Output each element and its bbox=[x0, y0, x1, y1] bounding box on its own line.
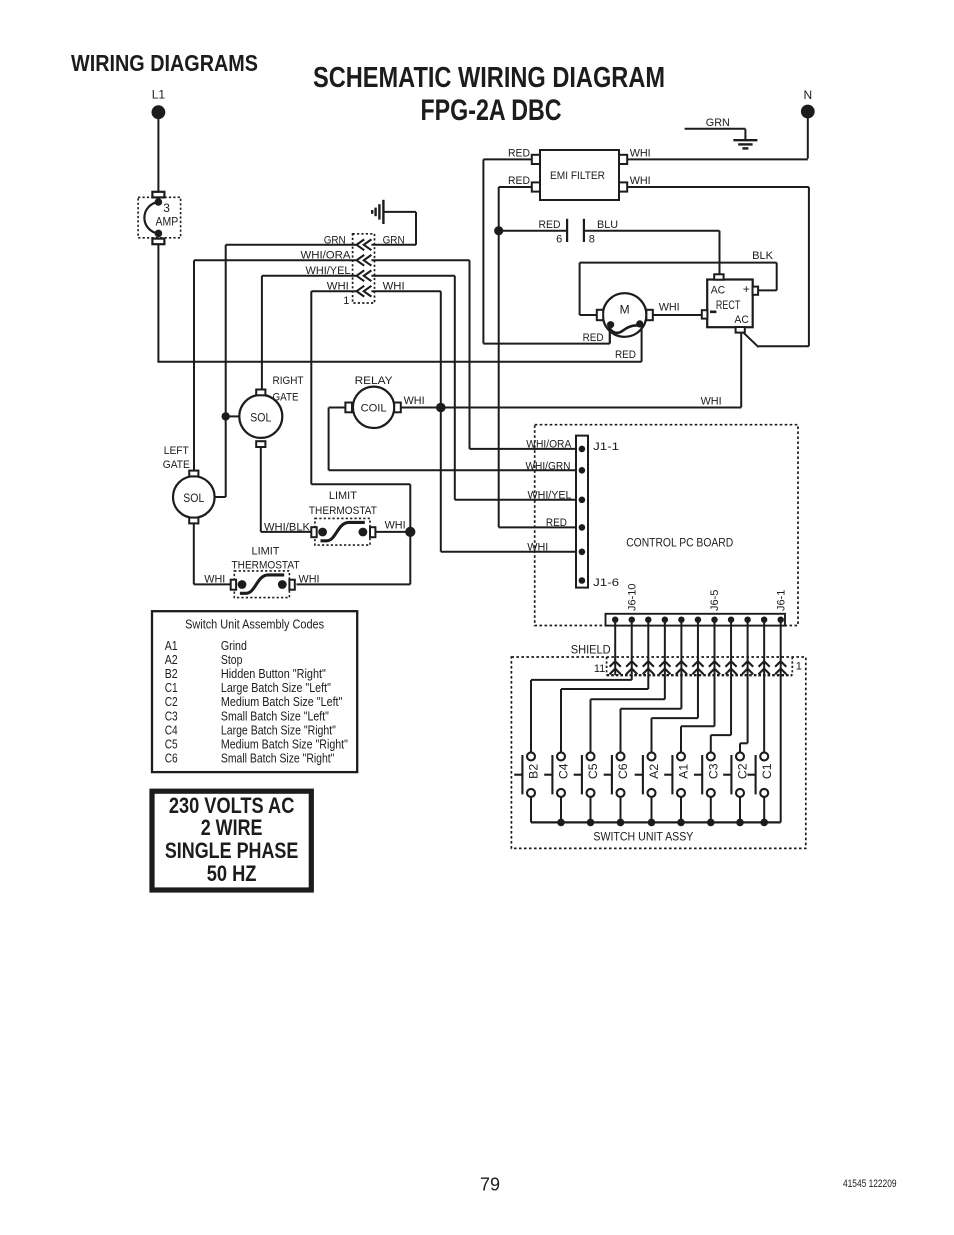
svg-text:RED: RED bbox=[583, 332, 604, 344]
svg-text:SOL: SOL bbox=[250, 412, 272, 424]
svg-text:C4: C4 bbox=[165, 723, 178, 737]
svg-text:RED: RED bbox=[546, 517, 567, 529]
svg-text:WHI/GRN: WHI/GRN bbox=[526, 460, 571, 472]
svg-text:1: 1 bbox=[343, 295, 349, 307]
svg-text:Stop: Stop bbox=[221, 653, 243, 667]
svg-text:8: 8 bbox=[589, 233, 595, 245]
svg-text:WHI: WHI bbox=[299, 573, 320, 585]
svg-text:EMI FILTER: EMI FILTER bbox=[550, 170, 605, 182]
svg-text:50 HZ: 50 HZ bbox=[207, 861, 257, 886]
svg-text:RED: RED bbox=[539, 219, 561, 231]
svg-text:Medium Batch Size "Left": Medium Batch Size "Left" bbox=[221, 695, 343, 709]
svg-text:Hidden Button "Right": Hidden Button "Right" bbox=[221, 667, 326, 681]
svg-text:WHI: WHI bbox=[527, 542, 548, 554]
svg-text:C1: C1 bbox=[760, 763, 774, 779]
svg-text:WHI/ORA: WHI/ORA bbox=[526, 439, 572, 451]
svg-text:RED: RED bbox=[508, 175, 530, 187]
svg-text:AC: AC bbox=[734, 314, 749, 326]
svg-text:C5: C5 bbox=[586, 763, 600, 779]
svg-text:79: 79 bbox=[480, 1175, 500, 1195]
svg-text:B2: B2 bbox=[527, 764, 541, 779]
svg-text:RELAY: RELAY bbox=[355, 375, 394, 387]
svg-text:THERMOSTAT: THERMOSTAT bbox=[309, 505, 377, 517]
svg-text:WHI: WHI bbox=[327, 281, 349, 293]
svg-text:RECT: RECT bbox=[716, 300, 741, 312]
svg-text:C6: C6 bbox=[165, 752, 178, 766]
svg-text:Large Batch Size "Left": Large Batch Size "Left" bbox=[221, 681, 331, 695]
svg-text:WHI: WHI bbox=[204, 573, 225, 585]
svg-text:Small Batch Size "Left": Small Batch Size "Left" bbox=[221, 709, 329, 723]
svg-text:GRN: GRN bbox=[324, 234, 346, 246]
svg-text:SOL: SOL bbox=[183, 493, 205, 505]
svg-text:LEFT: LEFT bbox=[164, 445, 189, 457]
svg-text:GRN: GRN bbox=[706, 117, 730, 129]
svg-text:J6-5: J6-5 bbox=[709, 590, 721, 611]
svg-text:WHI/BLK: WHI/BLK bbox=[264, 522, 311, 534]
svg-text:COIL: COIL bbox=[361, 402, 387, 414]
svg-text:+: + bbox=[743, 282, 750, 296]
svg-text:FPG-2A DBC: FPG-2A DBC bbox=[421, 94, 562, 127]
svg-text:N: N bbox=[803, 88, 812, 102]
svg-text:A1: A1 bbox=[677, 764, 691, 779]
svg-text:41545 122209: 41545 122209 bbox=[843, 1178, 897, 1190]
svg-text:C2: C2 bbox=[165, 695, 178, 709]
svg-text:C6: C6 bbox=[616, 763, 630, 779]
svg-text:C3: C3 bbox=[706, 763, 720, 779]
svg-text:3: 3 bbox=[163, 201, 170, 215]
svg-text:C5: C5 bbox=[165, 737, 178, 751]
svg-text:RIGHT: RIGHT bbox=[273, 375, 304, 387]
svg-text:WHI: WHI bbox=[630, 175, 651, 187]
svg-text:AMP: AMP bbox=[156, 214, 179, 228]
svg-text:C4: C4 bbox=[557, 763, 571, 779]
svg-text:WHI: WHI bbox=[630, 147, 651, 159]
svg-text:WHI/YEL: WHI/YEL bbox=[528, 490, 572, 502]
svg-text:L1: L1 bbox=[152, 88, 166, 102]
svg-text:Grind: Grind bbox=[221, 639, 247, 653]
svg-text:A2: A2 bbox=[647, 764, 661, 779]
svg-text:SINGLE PHASE: SINGLE PHASE bbox=[165, 838, 299, 863]
svg-text:B2: B2 bbox=[165, 667, 178, 681]
svg-text:BLK: BLK bbox=[752, 250, 774, 262]
svg-text:WHI: WHI bbox=[385, 520, 406, 532]
svg-text:SCHEMATIC WIRING DIAGRAM: SCHEMATIC WIRING DIAGRAM bbox=[313, 62, 665, 94]
svg-text:M: M bbox=[620, 302, 630, 316]
svg-text:WHI: WHI bbox=[383, 281, 405, 293]
svg-text:J1-1: J1-1 bbox=[593, 441, 619, 453]
svg-text:2 WIRE: 2 WIRE bbox=[201, 815, 263, 840]
svg-text:C2: C2 bbox=[736, 763, 750, 779]
svg-text:6: 6 bbox=[556, 233, 562, 245]
svg-text:Switch Unit Assembly Codes: Switch Unit Assembly Codes bbox=[185, 618, 324, 632]
svg-text:LIMIT: LIMIT bbox=[329, 490, 357, 502]
svg-text:BLU: BLU bbox=[597, 219, 618, 231]
svg-text:WHI: WHI bbox=[404, 395, 425, 407]
svg-text:Medium Batch Size "Right": Medium Batch Size "Right" bbox=[221, 737, 348, 751]
svg-text:11: 11 bbox=[594, 663, 605, 675]
svg-text:GRN: GRN bbox=[383, 234, 405, 246]
svg-text:WHI/ORA: WHI/ORA bbox=[301, 250, 352, 262]
svg-text:C1: C1 bbox=[165, 681, 178, 695]
svg-text:1: 1 bbox=[796, 661, 802, 673]
svg-text:WHI: WHI bbox=[701, 396, 722, 408]
svg-text:RED: RED bbox=[508, 147, 530, 159]
svg-text:CONTROL PC BOARD: CONTROL PC BOARD bbox=[626, 535, 733, 549]
svg-text:J1-6: J1-6 bbox=[593, 577, 619, 589]
svg-text:WHI/YEL: WHI/YEL bbox=[306, 265, 351, 277]
svg-text:Small Batch Size "Right": Small Batch Size "Right" bbox=[221, 752, 335, 766]
svg-text:C3: C3 bbox=[165, 709, 178, 723]
svg-text:GATE: GATE bbox=[163, 459, 190, 471]
svg-text:SWITCH UNIT ASSY: SWITCH UNIT ASSY bbox=[593, 829, 693, 843]
svg-text:RED: RED bbox=[615, 349, 636, 361]
svg-text:SHIELD: SHIELD bbox=[571, 645, 611, 657]
svg-text:WIRING DIAGRAMS: WIRING DIAGRAMS bbox=[71, 50, 258, 76]
svg-text:J6-1: J6-1 bbox=[775, 590, 787, 611]
svg-text:A2: A2 bbox=[165, 653, 178, 667]
svg-text:LIMIT: LIMIT bbox=[252, 546, 280, 558]
svg-text:WHI: WHI bbox=[659, 301, 680, 313]
svg-text:Large Batch Size "Right": Large Batch Size "Right" bbox=[221, 723, 336, 737]
svg-text:J6-10: J6-10 bbox=[626, 583, 638, 611]
svg-text:A1: A1 bbox=[165, 639, 178, 653]
svg-text:AC: AC bbox=[711, 284, 726, 296]
svg-text:THERMOSTAT: THERMOSTAT bbox=[232, 559, 300, 571]
